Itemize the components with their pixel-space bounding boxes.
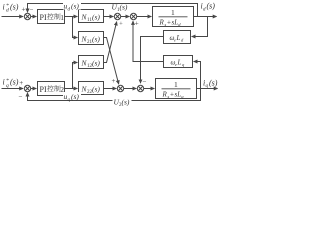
svg-text:−: − [30, 6, 34, 14]
label N12(s) text [81, 59, 101, 70]
svg-text:(s): (s) [71, 2, 79, 11]
svg-text:(s): (s) [120, 3, 128, 12]
block F1 transfer 1/(Rs+sLd) [153, 7, 194, 27]
svg-text:q: q [6, 83, 9, 89]
wire N12 diagonal to J1 [104, 22, 117, 63]
wire branch id down to omega1 [192, 17, 208, 37]
label fraction F2: 1 over Rs+sLq [162, 80, 191, 99]
svg-text:(s): (s) [92, 35, 100, 44]
svg-text:+: + [112, 77, 116, 85]
block omega2 (we Lq) [164, 56, 193, 68]
wire J0b to PI2 [31, 88, 37, 90]
svg-text:(s): (s) [92, 13, 100, 22]
svg-text:−: − [143, 78, 147, 86]
wire PI2 to N22 [65, 88, 78, 90]
wire F1 output to id [194, 16, 217, 18]
svg-text:(s): (s) [92, 85, 100, 94]
svg-text:1: 1 [174, 80, 178, 89]
svg-text:i: i [3, 3, 5, 12]
svg-text:+: + [135, 20, 139, 28]
label i*q(s) [3, 78, 19, 90]
svg-text:L: L [176, 34, 181, 42]
label PI control 2 text [40, 85, 65, 94]
svg-text:L: L [177, 59, 182, 67]
wire J1 to J2 [121, 16, 130, 18]
wire omega1 out to B2 [141, 37, 164, 84]
svg-text:(s): (s) [92, 59, 100, 68]
wire PI1 to N11 [65, 16, 78, 18]
block N21 [79, 32, 104, 45]
svg-text:(s): (s) [10, 3, 19, 12]
svg-text:1: 1 [171, 8, 175, 17]
wire N22 to B1 [104, 88, 117, 90]
label U1(s) [112, 3, 128, 14]
label omega2: we Lq [171, 59, 186, 68]
svg-text:−: − [19, 93, 23, 101]
wire input i*q [2, 88, 24, 90]
block F2 transfer 1/(Rs+sLq) [156, 79, 197, 99]
svg-text:(s): (s) [71, 92, 79, 101]
wire J0t to PI1 [31, 16, 37, 18]
summing junction B2 [137, 85, 143, 91]
svg-text:PI: PI [40, 85, 47, 94]
label U2(s) [113, 98, 132, 109]
wire top feedback line [28, 4, 198, 17]
block omega1 (we Ld) [164, 31, 191, 44]
svg-text:+: + [167, 19, 171, 27]
wire N11 to J1 [104, 16, 114, 18]
label N22(s) text [81, 85, 101, 96]
svg-text:+: + [170, 91, 174, 99]
label iq(s) output [203, 78, 218, 89]
label N11(s) text [81, 13, 101, 24]
wire B1 to B2 [124, 88, 137, 90]
svg-text:sL: sL [172, 19, 179, 27]
label uq(s) [63, 92, 81, 103]
summing junction J0t [24, 13, 30, 19]
wire branch uq up to N12 [73, 63, 78, 89]
svg-text:+: + [119, 21, 123, 28]
wire branch iq up to omega2 [194, 62, 201, 89]
label i*d(s) [3, 3, 19, 14]
svg-text:PI: PI [40, 13, 47, 22]
wire bottom feedback line [28, 89, 201, 101]
block PI controller 1 [38, 10, 65, 24]
summing junction J1 [114, 13, 120, 19]
wire branch ud down to N21 [73, 17, 78, 38]
svg-text:i: i [3, 78, 5, 87]
wire B2 to block F2 [144, 88, 155, 90]
summing junction J2 [130, 13, 136, 19]
summing junction J0b [24, 85, 30, 91]
block PI controller 2 [38, 82, 65, 96]
svg-text:sL: sL [175, 91, 182, 99]
wire input i*d [2, 16, 24, 18]
block N12 [79, 56, 104, 69]
svg-text:(s): (s) [207, 2, 216, 11]
label omega1: we Ld [170, 34, 185, 43]
label N21(s) text [81, 35, 101, 46]
label PI control 1 text [40, 13, 65, 22]
summing junction B1 [117, 85, 123, 91]
wire N21 diagonal to B1 [104, 38, 119, 85]
label ud(s) [63, 2, 81, 13]
wire omega2 out to J2 [133, 21, 164, 61]
svg-text:1: 1 [60, 13, 64, 22]
svg-text:(s): (s) [10, 78, 19, 87]
wire F2 output to iq [197, 88, 218, 90]
svg-text:d: d [6, 8, 9, 14]
block N11 [79, 10, 104, 23]
block N22 [79, 82, 104, 95]
wire J2 to block F1 [137, 16, 152, 18]
label id(s) output [201, 2, 216, 13]
svg-text:(s): (s) [122, 98, 130, 107]
label fraction F1: 1 over Rs+sLd [159, 8, 188, 27]
svg-text:+: + [19, 79, 23, 87]
svg-text:(s): (s) [209, 78, 218, 87]
svg-text:+: + [22, 6, 26, 14]
